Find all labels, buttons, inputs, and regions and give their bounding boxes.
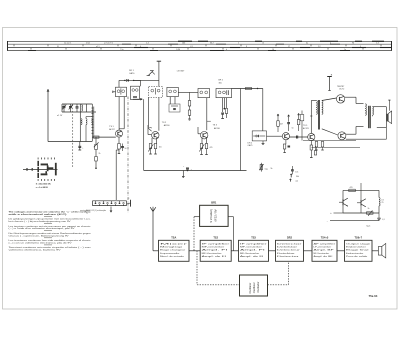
svg-text:MF-versterker: MF-versterker [202, 245, 225, 248]
svg-text:no ave 1: no ave 1 [64, 43, 71, 45]
AGC return vertical [240, 89, 242, 171]
rail left riser [143, 99, 145, 170]
svg-text:DR2: DR2 [287, 237, 293, 240]
output transformer T2 primary [365, 104, 366, 106]
svg-text:NF-Verstaerker: NF-Verstaerker [314, 252, 330, 255]
section divider dash-dot [127, 97, 129, 213]
svg-text:0,1: 0,1 [382, 219, 384, 221]
loudspeaker jack glyph [387, 114, 388, 122]
diode pair glyph [148, 70, 153, 75]
svg-text:OA70: OA70 [129, 72, 135, 75]
volume potentiometer R7 [260, 163, 262, 172]
svg-text:786/787: 786/787 [337, 86, 345, 88]
oscillator box S3 dashed [149, 87, 163, 98]
svg-text:6: 6 [140, 46, 141, 48]
wire aerial to mixer block [153, 250, 159, 252]
wire S2 to riser with arrow [133, 98, 142, 100]
svg-text:2: 2 [330, 43, 331, 45]
svg-text:Mengtrap: Mengtrap [160, 245, 184, 248]
rail stub with terminal [182, 171, 184, 177]
wire TS4+5 to TS6+7 [337, 250, 345, 252]
neutralizing box [169, 104, 180, 112]
TS3 emitter resistors [201, 137, 203, 143]
rail junction capacitor [186, 167, 189, 169]
svg-text:5k: 5k [271, 168, 273, 170]
svg-text:het chassis ( - ) bij een batt: het chassis ( - ) bij een batterijspanni… [9, 220, 72, 223]
svg-text:1k5: 1k5 [159, 147, 162, 149]
svg-text:LF-versterker: LF-versterker [314, 245, 332, 248]
detector output stub [262, 141, 264, 144]
bias circuit top wire [343, 189, 379, 191]
svg-text:TS3: TS3 [251, 237, 256, 240]
svg-text:8: 8 [246, 46, 247, 48]
battery wire right [228, 216, 233, 218]
svg-text:7.5a: 7.5a [120, 49, 124, 51]
svg-text:1: 1 [238, 43, 239, 45]
wire T1 secondary to TS7 [322, 129, 338, 135]
wire S6 output to detector [232, 88, 263, 90]
earth symbol right [378, 213, 380, 218]
resistor R6 above TS5 [298, 116, 300, 120]
main earth rail [144, 170, 247, 172]
svg-text:9b: 9b [352, 43, 354, 45]
TS1 emitter chain [118, 137, 120, 143]
svg-text:Detector: Detector [277, 255, 299, 258]
ganged-tuning dash link [72, 105, 74, 169]
top terminal bar [157, 60, 161, 62]
svg-text:Output stage: Output stage [346, 242, 372, 245]
dial-strip bottom line [8, 50, 392, 52]
T1 tap tick [310, 115, 312, 117]
output transformer T2 secondary loop [372, 106, 386, 108]
bias transistor Q1 [342, 199, 344, 205]
dial-strip tick marks [13, 45, 15, 47]
ground mark below C4 [78, 149, 81, 151]
coil L1a [82, 105, 83, 107]
dial-strip dark segments row1 [178, 40, 192, 42]
node end dot [95, 161, 97, 168]
switch legend top pins [37, 158, 40, 160]
TS5 emitter parts [310, 141, 312, 145]
svg-text:75a 04: 75a 04 [369, 294, 378, 298]
wire S3 to TS2 base with arrow [147, 98, 149, 129]
AGC capacitor C5 [95, 150, 97, 157]
svg-text:2 bcl: 2 bcl [86, 43, 91, 45]
svg-text:25: 25 [382, 202, 384, 204]
svg-text:a: a [128, 198, 129, 200]
AGC wire to oscillator column [134, 79, 159, 81]
svg-text:5n: 5n [292, 128, 294, 130]
svg-text:MF-Verstaerker: MF-Verstaerker [240, 252, 260, 255]
resistor R4 on detector feed [246, 87, 252, 89]
svg-text:Frequenzwandler: Frequenzwandler [160, 252, 180, 255]
svg-text:AF116: AF116 [214, 127, 221, 130]
transistor TS1 [116, 130, 123, 137]
svg-text:17: 17 [288, 46, 290, 48]
block diagram aerial [152, 212, 154, 251]
ferrite rod core line [93, 107, 95, 137]
svg-text:Mezcl. de entrada: Mezcl. de entrada [160, 255, 185, 258]
wire bottom of input circuit [48, 141, 92, 143]
TS3 label stub [207, 120, 211, 122]
emitter resistors output stage [315, 142, 318, 148]
wire oscillator to detector [268, 284, 289, 286]
svg-text:voltmetro elettronico, batteri: voltmetro elettronico, batteria 9V [9, 249, 62, 252]
switch row right bar [130, 200, 132, 207]
TS1 emitter bypass C7 [121, 146, 124, 148]
supply arrow C8 [288, 115, 290, 117]
svg-text:AF amplifier: AF amplifier [314, 242, 336, 245]
bias note glyph 2 [289, 179, 291, 182]
transistor TS2 [152, 132, 159, 139]
svg-text:-: - [327, 220, 328, 223]
dial-strip right end cap [391, 41, 393, 51]
svg-text:Ampl. de FI: Ampl. de FI [202, 255, 227, 258]
bias resistor R10 [349, 189, 356, 191]
detector diode DR2 box [252, 131, 266, 141]
switch legend bottom pins [37, 179, 40, 181]
oscillator feed vertical [158, 65, 160, 87]
wire detector drop [262, 89, 264, 132]
trimmer capacitor C2 [69, 106, 72, 108]
resistor R3 under S6 [225, 109, 227, 114]
svg-text:1k: 1k [368, 208, 370, 210]
IF transformer S5 [198, 89, 210, 98]
TS4 emitter parts [285, 140, 287, 144]
svg-text:TS4+5: TS4+5 [321, 237, 329, 240]
block diagram loudspeaker [378, 247, 381, 256]
svg-text:Ampl. de BF: Ampl. de BF [314, 255, 334, 258]
aerial rod antenna lead-in wire [47, 91, 49, 142]
IF transformer S6 [216, 89, 232, 98]
wire TS7 collector [346, 133, 356, 135]
svg-text:2.2: 2.2 [318, 46, 321, 48]
svg-text:Eindversterker: Eindversterker [346, 245, 366, 248]
svg-text:30k: 30k [296, 176, 299, 178]
inner loop wire [86, 116, 92, 118]
wire TS5 collector to T1 [310, 101, 312, 134]
input loop left leg [79, 104, 81, 142]
wire mixer to oscillator [196, 251, 198, 285]
svg-text:1.0M: 1.0M [176, 49, 180, 51]
bias note glyph 1 [290, 174, 292, 178]
wire S5 to TS3 collector [206, 98, 208, 131]
svg-text:3: 3 [360, 46, 361, 48]
preset potentiometer [367, 212, 374, 214]
TS3 base wire [198, 133, 201, 135]
svg-text:Chassis ( - ) gemessen, Batter: Chassis ( - ) gemessen, Batteriespannung… [9, 234, 70, 237]
svg-text:a1 1V: a1 1V [57, 115, 63, 117]
earphone socket line [388, 100, 390, 111]
svg-text:l.2: l.2 [262, 43, 264, 45]
dial-strip dark segments row4 [28, 50, 36, 52]
tuned circuit element 2 [86, 119, 87, 121]
svg-text:Oszillator: Oszillator [252, 282, 256, 293]
svg-text:IF amplifier: IF amplifier [202, 242, 230, 245]
svg-text:with a electronical values (4°: with a electronical values (4°C) [9, 213, 68, 216]
wire TS2 to TS3 [231, 250, 238, 252]
input loop right leg [91, 104, 93, 142]
transistor TS5 [308, 133, 315, 140]
wire DR2 to TS4+5 [304, 250, 313, 252]
supply arrow R6 [298, 114, 300, 116]
wire TS6+7 to speaker [372, 250, 378, 252]
transistor TS7 [338, 132, 346, 140]
svg-text:S = 452-1622 kHz: S = 452-1622 kHz [36, 183, 51, 186]
svg-text:Ampl. de FI: Ampl. de FI [240, 255, 264, 258]
series resistor R1 [94, 136, 100, 138]
dial-strip line 2 [8, 43, 392, 45]
svg-text:log: log [265, 169, 268, 171]
band switch contact row [93, 200, 127, 202]
svg-text:u = 3 al 48-58: u = 3 al 48-58 [36, 186, 48, 189]
switch legend contact ticks left [26, 168, 27, 171]
dial-strip top line [8, 40, 392, 42]
svg-text:1.4: 1.4 [146, 43, 149, 45]
svg-text:a1 1: a1 1 [96, 46, 100, 48]
AGC filter chain R2 [95, 137, 97, 144]
battery positive stub B [327, 76, 332, 78]
svg-text:Detecteur: Detecteur [277, 249, 301, 252]
svg-text:Etage final: Etage final [346, 249, 370, 252]
wire input top rail [62, 103, 92, 105]
bias feed stub [360, 183, 362, 190]
wire DR1 to S1 [118, 80, 120, 87]
svg-text:Oscilador: Oscilador [256, 282, 260, 293]
svg-text:Etage changeur: Etage changeur [160, 249, 186, 252]
switch legend right bar [55, 163, 57, 176]
wire T1 secondary to TS6 [322, 98, 337, 101]
wire S4 legs [169, 97, 171, 104]
diode DR1 [119, 79, 141, 81]
svg-text:30k: 30k [219, 82, 222, 84]
svg-text:DR 1: DR 1 [129, 70, 135, 72]
transistor TS6 [336, 95, 344, 103]
dial-strip line 3 [8, 47, 392, 49]
TS2 emitter resistors [151, 138, 153, 144]
feedback wire [346, 138, 387, 140]
svg-text:MF-versterker: MF-versterker [240, 245, 262, 248]
wire Q2 vertical [360, 190, 362, 199]
svg-text:b: b [226, 49, 227, 51]
long wire to band switch [115, 150, 117, 200]
svg-text:14: 14 [272, 49, 274, 51]
coupling capacitor C9 [296, 136, 298, 139]
bias circuit bottom wire [343, 212, 379, 214]
resistor R5 above TS4 [277, 116, 279, 121]
svg-text:Mixer: Mixer [160, 242, 189, 245]
svg-text:BR1: BR1 [211, 201, 217, 204]
svg-text:( - ) con un voltimetro electr: ( - ) con un voltimetro electronico, pil… [9, 241, 73, 244]
svg-text:2k: 2k [99, 153, 101, 155]
supply arrow R5 [277, 114, 279, 116]
capacitor C8 above TS4 [288, 117, 290, 122]
output emitter rail [303, 140, 356, 142]
switch legend upper arm [41, 164, 48, 166]
tuned circuit element 1 [81, 119, 82, 121]
svg-text:L5V30T: L5V30T [177, 71, 185, 73]
tone capacitor C10 [291, 169, 294, 171]
svg-text:a.9 cm.9 1: a.9 cm.9 1 [104, 43, 113, 45]
wire TS3 to DR2 [269, 250, 276, 252]
wire input lower rail [62, 111, 96, 113]
feedback return [312, 146, 361, 148]
terminal left of S1 [113, 91, 116, 93]
svg-text:Ampl. FI: Ampl. FI [240, 249, 266, 252]
svg-text:470: 470 [210, 147, 213, 149]
TS2 base wire [148, 134, 151, 136]
tuning capacitor C3 [76, 106, 79, 108]
svg-text:AF116: AF116 [164, 124, 171, 127]
svg-text:1.4: 1.4 [376, 43, 379, 45]
stub under S6 with dot [223, 98, 225, 108]
dial-strip left end cap [7, 41, 9, 51]
transistor TS3 [201, 132, 208, 139]
battery wire left [194, 216, 200, 218]
trimmer capacitor C1 [63, 106, 66, 108]
svg-text:Detektor: Detektor [277, 245, 298, 248]
wire TS4 to TS5 [290, 136, 308, 138]
minus return line [330, 220, 379, 222]
svg-text:Ampl. BF: Ampl. BF [314, 249, 336, 252]
switch actuation arrow [110, 207, 112, 212]
svg-text:l.l 1: l.l 1 [190, 46, 193, 48]
svg-text:Oscillator: Oscillator [248, 283, 252, 294]
svg-text:MF-Verstaerker: MF-Verstaerker [202, 252, 222, 255]
output transformer T2 core [368, 106, 370, 128]
svg-text:( - ) a l'aide d'un voltmetre: ( - ) a l'aide d'un voltmetre electroniq… [9, 227, 76, 230]
svg-text:TSA: TSA [171, 237, 176, 240]
svg-text:6F22 / 9V: 6F22 / 9V [214, 209, 218, 221]
IF transformer S1 [116, 87, 127, 96]
svg-text:Paso de salida: Paso de salida [346, 256, 369, 258]
wire S1 secondary to TS1 collector [118, 97, 120, 131]
oscillator block TS1 [240, 275, 268, 296]
dial-strip dark segments row3 [134, 47, 148, 49]
svg-text:1bb: 1bb [182, 43, 185, 45]
svg-text:50: 50 [125, 148, 127, 150]
coil LS right leg [378, 190, 380, 197]
svg-text:30.2: 30.2 [210, 43, 214, 45]
svg-text:OC72: OC72 [339, 89, 345, 91]
wire S2 down legs [132, 98, 134, 100]
transistor TS4 [282, 133, 289, 140]
svg-text:9 V batterij: 9 V batterij [209, 209, 213, 223]
dial-strip dark segments row2 [122, 43, 131, 45]
wire S3 leg 2 down to TS2 [158, 98, 160, 131]
switch legend main bar [37, 161, 39, 166]
svg-text:4k7: 4k7 [280, 124, 283, 126]
capacitor C6 under S6 [221, 112, 224, 114]
wire below jack [385, 127, 387, 139]
svg-text:Endverstaerker: Endverstaerker [346, 252, 364, 255]
wire S6 legs down [222, 98, 224, 112]
wire TS6 collector [345, 96, 356, 98]
bias circuit left leg [342, 190, 344, 213]
wire S4 to S5 [178, 91, 198, 93]
svg-text:31: 31 [57, 46, 59, 48]
tuned circuit element 3 [92, 119, 93, 121]
svg-text:AF117: AF117 [109, 128, 114, 131]
bias chain between S4 and S5 [189, 92, 191, 100]
svg-text:Detector: Detector [277, 242, 303, 245]
wire S1 tap [123, 97, 125, 129]
wire DR1 to S2 [140, 80, 142, 86]
base feed wire TS1 [92, 136, 116, 138]
thermistor box [300, 115, 304, 121]
bias transistor Q2 [360, 200, 362, 206]
svg-text:OA79: OA79 [248, 144, 253, 147]
svg-text:TS2: TS2 [213, 237, 218, 240]
coupling capacitor C4 [78, 145, 81, 147]
svg-text:TS6+7: TS6+7 [355, 237, 363, 240]
svg-text:10n: 10n [295, 171, 298, 173]
ferrite rod winding marks [91, 107, 93, 109]
switch legend lower arm [41, 173, 48, 175]
svg-text:IF amplifier: IF amplifier [240, 242, 267, 245]
svg-text:470: 470 [350, 187, 353, 189]
svg-text:Ampl. FI: Ampl. FI [202, 249, 229, 252]
switch legend baseline [23, 169, 58, 171]
IF transformer S4 [167, 87, 178, 96]
driver transformer T1 [316, 101, 317, 103]
IF transformer S2 [131, 86, 140, 99]
wire TSA to TS2 [189, 250, 200, 252]
svg-text:meetwaarden: meetwaarden [80, 209, 90, 212]
wire detector to TS4 [267, 135, 283, 137]
svg-text:Detektor: Detektor [277, 252, 295, 255]
svg-text:AC125: AC125 [303, 127, 309, 130]
svg-text:1a: 1a [344, 49, 346, 51]
